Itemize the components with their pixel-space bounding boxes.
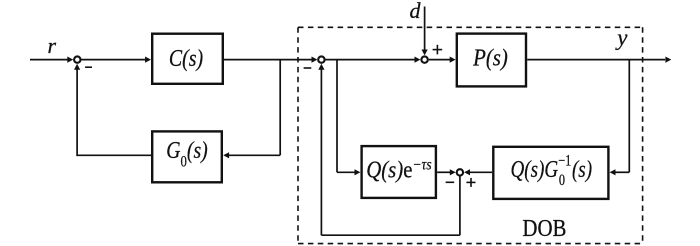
input label r: [48, 33, 57, 58]
svg-text:y: y: [615, 25, 628, 50]
wire C(s) to S2: [224, 57, 317, 63]
wire G0(s) output to S1: [74, 64, 151, 156]
svg-text:−1: −1: [558, 154, 571, 171]
wire S3 to P(s): [429, 57, 456, 63]
svg-text:−τs: −τs: [412, 156, 431, 173]
block P(s): [457, 34, 526, 87]
svg-text:0: 0: [559, 173, 565, 190]
block G0(s): [152, 131, 222, 182]
summing junction S1: [74, 56, 80, 62]
disturbance label d: [410, 0, 422, 23]
wire QG0 output to S4: [464, 169, 492, 175]
label DOB: [522, 215, 566, 242]
minus sign at S4: [446, 181, 455, 183]
svg-text:P(s): P(s): [472, 44, 508, 71]
wire S2 to S3: [326, 57, 421, 63]
wire r input: [30, 57, 73, 63]
wire tap down to G0(s) input: [223, 60, 280, 159]
plus sign at S4: [466, 178, 475, 187]
wire S1 to C(s): [81, 57, 151, 63]
wire P(s) output to y arrow: [527, 57, 671, 63]
block Q(s)G0^-1(s): [493, 147, 608, 199]
wire Qe output to S4: [437, 169, 456, 175]
svg-text:C(s): C(s): [169, 44, 203, 71]
DOB dashed boundary: [298, 27, 643, 243]
summing junction S2: [318, 56, 324, 62]
wire y tap down to QG0 input: [610, 60, 630, 176]
block C(s): [152, 34, 223, 84]
minus sign at S2: [304, 67, 312, 69]
svg-text:Q(s)G: Q(s)G: [511, 156, 559, 183]
plus sign at S3: [433, 45, 443, 55]
wire S4 output to S2: [318, 64, 460, 235]
svg-text:(s): (s): [572, 156, 592, 183]
block Q(s)e^-taus: [362, 146, 436, 198]
svg-text:DOB: DOB: [522, 215, 566, 242]
svg-text:Q(s)e: Q(s)e: [366, 156, 412, 183]
wire tap down to Qe input: [337, 60, 360, 176]
minus sign at S1: [85, 66, 92, 68]
output label y: [615, 25, 628, 50]
svg-text:d: d: [410, 0, 422, 23]
svg-text:G0(s): G0(s): [166, 136, 208, 170]
summing junction S4: [457, 169, 463, 175]
svg-text:r: r: [48, 33, 57, 58]
summing junction S3: [421, 56, 427, 62]
wire d into S3: [422, 7, 428, 56]
